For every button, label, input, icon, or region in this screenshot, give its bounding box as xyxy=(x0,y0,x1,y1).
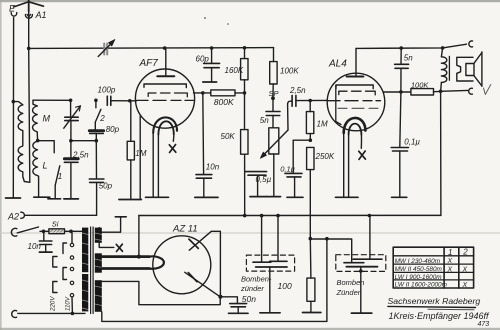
wire grid into tube xyxy=(130,100,137,102)
switch 2 xyxy=(95,100,101,122)
tube AL4 xyxy=(327,48,385,134)
wire selector top stub xyxy=(71,231,73,243)
node AF7 top cap xyxy=(163,46,167,50)
svg-text:220V: 220V xyxy=(49,296,56,312)
svg-text:110V: 110V xyxy=(65,296,72,311)
ground AL4 xyxy=(336,196,359,198)
capacitor 2.5n xyxy=(64,141,78,199)
electrolytic Bombenzuender right xyxy=(336,216,386,314)
svg-text:LW II 1600-2000m: LW II 1600-2000m xyxy=(395,282,448,289)
mains plug bottom prong xyxy=(12,311,17,318)
node bus 50K xyxy=(243,214,247,218)
svg-text:0,1µ: 0,1µ xyxy=(404,138,420,147)
capacitor 0.1u mid xyxy=(285,173,302,197)
svg-text:X: X xyxy=(447,266,453,273)
svg-text:100p: 100p xyxy=(98,85,116,94)
node 60p tap xyxy=(210,46,214,50)
loudspeaker xyxy=(457,52,491,95)
node bus elco2 xyxy=(276,214,280,218)
terminal A2 xyxy=(21,212,25,218)
voltage selector terminals xyxy=(70,243,73,297)
wire to lower hook xyxy=(441,89,468,92)
wire cap bottom row xyxy=(71,140,96,142)
wire B+ to elco right xyxy=(310,239,351,263)
svg-text:5n: 5n xyxy=(404,54,413,63)
node 10n tap xyxy=(201,91,205,95)
svg-text:SP: SP xyxy=(269,89,279,98)
svg-text:2: 2 xyxy=(99,114,105,123)
node outer loop junction xyxy=(325,237,329,241)
resistor 160K xyxy=(241,48,248,93)
svg-text:1M: 1M xyxy=(135,149,146,158)
wire B+ riser right xyxy=(440,91,442,215)
wire AL4 anode top xyxy=(356,44,467,48)
svg-text:80p: 80p xyxy=(106,125,120,134)
resistor 100 xyxy=(303,239,321,313)
node fuse out xyxy=(69,230,73,234)
coil M xyxy=(33,100,38,140)
svg-text:MW I 230-460m: MW I 230-460m xyxy=(395,258,441,265)
node 2.5n top xyxy=(69,139,73,143)
svg-text:50K: 50K xyxy=(221,132,236,141)
svg-text:2: 2 xyxy=(462,248,468,257)
svg-text:AF7: AF7 xyxy=(139,58,159,69)
electrolytic Bombenzuender left xyxy=(246,216,294,313)
node transformer top xyxy=(441,46,445,50)
ground xyxy=(6,197,21,199)
node bus elco1 xyxy=(260,214,264,218)
wire AF7 anode xyxy=(194,92,211,94)
capacitor 0.5u xyxy=(245,172,266,197)
svg-text:2,5n: 2,5n xyxy=(289,86,306,95)
mains switch xyxy=(17,227,38,233)
svg-text:L: L xyxy=(43,161,48,171)
terminal hook bottom xyxy=(469,88,473,94)
AF7 X stem xyxy=(172,134,175,141)
variable tuning capacitor xyxy=(64,100,81,140)
resistor 50K xyxy=(241,93,248,216)
terminal hook top xyxy=(469,41,473,47)
wire top main xyxy=(29,47,274,50)
capacitor 100p xyxy=(107,96,130,105)
node AZ11 anode xyxy=(218,295,222,299)
ground switch 1 xyxy=(48,198,61,200)
node voltage tap xyxy=(71,312,75,316)
wire to 0.1u mid xyxy=(293,140,310,173)
wire B+ bus xyxy=(139,214,441,216)
wire A1 down xyxy=(29,17,30,182)
ground 2.5n xyxy=(64,198,79,200)
ground 1M/cathode xyxy=(119,199,141,201)
terminal E xyxy=(11,13,17,16)
svg-text:10n: 10n xyxy=(28,242,42,251)
capacitor 2.5n coupling xyxy=(292,95,328,106)
svg-text:473: 473 xyxy=(478,321,490,328)
switch 1 xyxy=(55,166,60,199)
capacitor 60p xyxy=(204,48,220,82)
svg-text:M: M xyxy=(43,114,51,124)
svg-text:MW II 450-580m: MW II 450-580m xyxy=(395,266,443,273)
AF7 cathode line xyxy=(139,116,141,200)
wire A2 xyxy=(25,214,97,216)
plug A1 xyxy=(25,12,32,19)
svg-text:AZ 11: AZ 11 xyxy=(172,224,198,235)
svg-text:100K: 100K xyxy=(411,80,430,89)
wire mains bottom xyxy=(18,312,85,314)
label X transformer xyxy=(116,244,122,251)
node M-L tap xyxy=(36,139,40,143)
svg-text:2,5n: 2,5n xyxy=(72,150,89,159)
potentiometer volume xyxy=(260,128,288,197)
transformer primary winding xyxy=(82,228,88,312)
node 5n right tap xyxy=(399,90,403,94)
HV winding loop outer xyxy=(102,239,327,322)
node 50p top xyxy=(95,139,99,143)
resistor 100K screen xyxy=(270,48,277,99)
node rectifier cathode xyxy=(137,255,141,259)
coil L xyxy=(33,141,39,197)
label X AL4 xyxy=(359,151,366,159)
svg-text:X: X xyxy=(462,282,468,289)
svg-text:0,1µ: 0,1µ xyxy=(280,164,295,173)
svg-text:10n: 10n xyxy=(206,163,220,172)
svg-text:zünder: zünder xyxy=(240,284,264,293)
wire E down xyxy=(12,17,14,198)
svg-text:1: 1 xyxy=(448,248,452,257)
ground 60p xyxy=(203,81,217,83)
svg-text:Zünder: Zünder xyxy=(336,288,361,297)
wire wiper to 2.5n xyxy=(288,101,292,130)
wave range table xyxy=(393,247,473,288)
resistor 100K right xyxy=(411,89,441,95)
ground 0.1u right xyxy=(392,196,407,198)
wire AL4 screen xyxy=(384,91,411,93)
antenna coil junction node xyxy=(12,100,16,104)
AL4 cathode legs xyxy=(344,131,349,197)
wire grid row left xyxy=(33,99,71,101)
svg-text:A2: A2 xyxy=(7,211,19,221)
svg-text:5n: 5n xyxy=(260,116,269,125)
trimmer capacitor xyxy=(98,40,115,57)
antenna coil xyxy=(13,102,30,183)
resistor 250K xyxy=(307,147,314,238)
node bus elco right xyxy=(368,214,372,218)
svg-text:50p: 50p xyxy=(99,182,113,191)
output transformer winding xyxy=(441,48,450,91)
resistor 800K xyxy=(211,90,245,96)
svg-text:AL4: AL4 xyxy=(328,59,347,70)
svg-text:LW I 900-1600m: LW I 900-1600m xyxy=(395,274,443,281)
node AL4 grid xyxy=(308,99,312,103)
tube AZ11 xyxy=(153,231,221,296)
svg-text:100: 100 xyxy=(278,281,292,291)
tube AF7 xyxy=(135,48,194,134)
capacitor 5n right xyxy=(395,48,409,92)
ground 0.5u xyxy=(250,196,266,198)
capacitor 50p xyxy=(89,141,104,216)
resistor 1M AL4 grid xyxy=(306,101,313,141)
label X xyxy=(169,145,176,153)
capacitor 10n xyxy=(196,93,212,197)
antenna symbol xyxy=(14,0,44,12)
capacitor 80p xyxy=(89,122,103,140)
svg-text:A1: A1 xyxy=(35,10,47,20)
wire heater X tap xyxy=(99,243,114,248)
svg-text:E: E xyxy=(9,4,16,14)
wire bus to rectifier cathode xyxy=(138,216,140,257)
svg-text:0,5µ: 0,5µ xyxy=(256,175,272,184)
HV winding loop inner xyxy=(102,281,220,304)
node antenna junction xyxy=(27,47,31,51)
node 160K top xyxy=(243,46,247,50)
svg-text:Bomben: Bomben xyxy=(337,278,365,287)
node 5n top xyxy=(399,46,403,50)
node SP xyxy=(271,96,275,100)
svg-text:50n: 50n xyxy=(242,294,256,304)
svg-text:Bomben-: Bomben- xyxy=(241,274,272,283)
node switch2 top xyxy=(94,99,98,103)
svg-text:250K: 250K xyxy=(315,152,335,161)
transformer core xyxy=(91,227,94,314)
fuse Si xyxy=(49,229,65,234)
svg-text:60p: 60p xyxy=(196,55,210,64)
transformer secondary windings xyxy=(95,228,102,312)
svg-text:1M: 1M xyxy=(317,119,328,128)
node B+ 100ohm junction xyxy=(309,237,313,241)
heater winding ground stub xyxy=(99,217,126,232)
svg-text:800K: 800K xyxy=(214,97,234,107)
ground L xyxy=(34,196,50,198)
svg-text:100K: 100K xyxy=(280,66,299,75)
node 1M/250K junction xyxy=(309,138,313,142)
ground AF7 heater xyxy=(146,196,169,198)
capacitor 10n mains xyxy=(39,231,52,252)
svg-text:Sachsenwerk Radeberg: Sachsenwerk Radeberg xyxy=(388,296,481,306)
node 800K/160K junction xyxy=(243,91,247,95)
node 10n mains tap xyxy=(42,230,46,234)
ground 0.1u mid xyxy=(287,196,303,198)
svg-text:160K: 160K xyxy=(225,66,244,75)
resistor 1M grid leak xyxy=(127,101,134,200)
wire tap to switch 1 xyxy=(38,141,55,153)
node output transformer bottom xyxy=(439,90,443,94)
capacitor 50n xyxy=(220,297,248,314)
ground potentiometer xyxy=(266,196,281,198)
selector brackets xyxy=(53,243,67,293)
wire mains top xyxy=(40,230,82,232)
svg-text:1Kreis·Empfänger 1946ff: 1Kreis·Empfänger 1946ff xyxy=(389,311,491,321)
AF7 heater legs xyxy=(153,131,158,197)
node tuning cap top xyxy=(69,99,73,103)
node AF7 grid xyxy=(128,99,132,103)
node elco right common xyxy=(359,269,363,273)
AZ11 heater wires xyxy=(102,256,164,268)
capacitor 5n xyxy=(266,98,280,127)
svg-text:X: X xyxy=(462,266,468,273)
mains plug top prong xyxy=(11,228,17,236)
ground 10n xyxy=(195,196,218,198)
svg-text:X: X xyxy=(447,258,453,265)
svg-text:1: 1 xyxy=(58,172,62,181)
capacitor 0.1u right xyxy=(391,92,408,197)
svg-text:Si: Si xyxy=(52,220,59,229)
wire tap riser xyxy=(71,297,73,314)
AL4 X stem xyxy=(360,135,362,149)
